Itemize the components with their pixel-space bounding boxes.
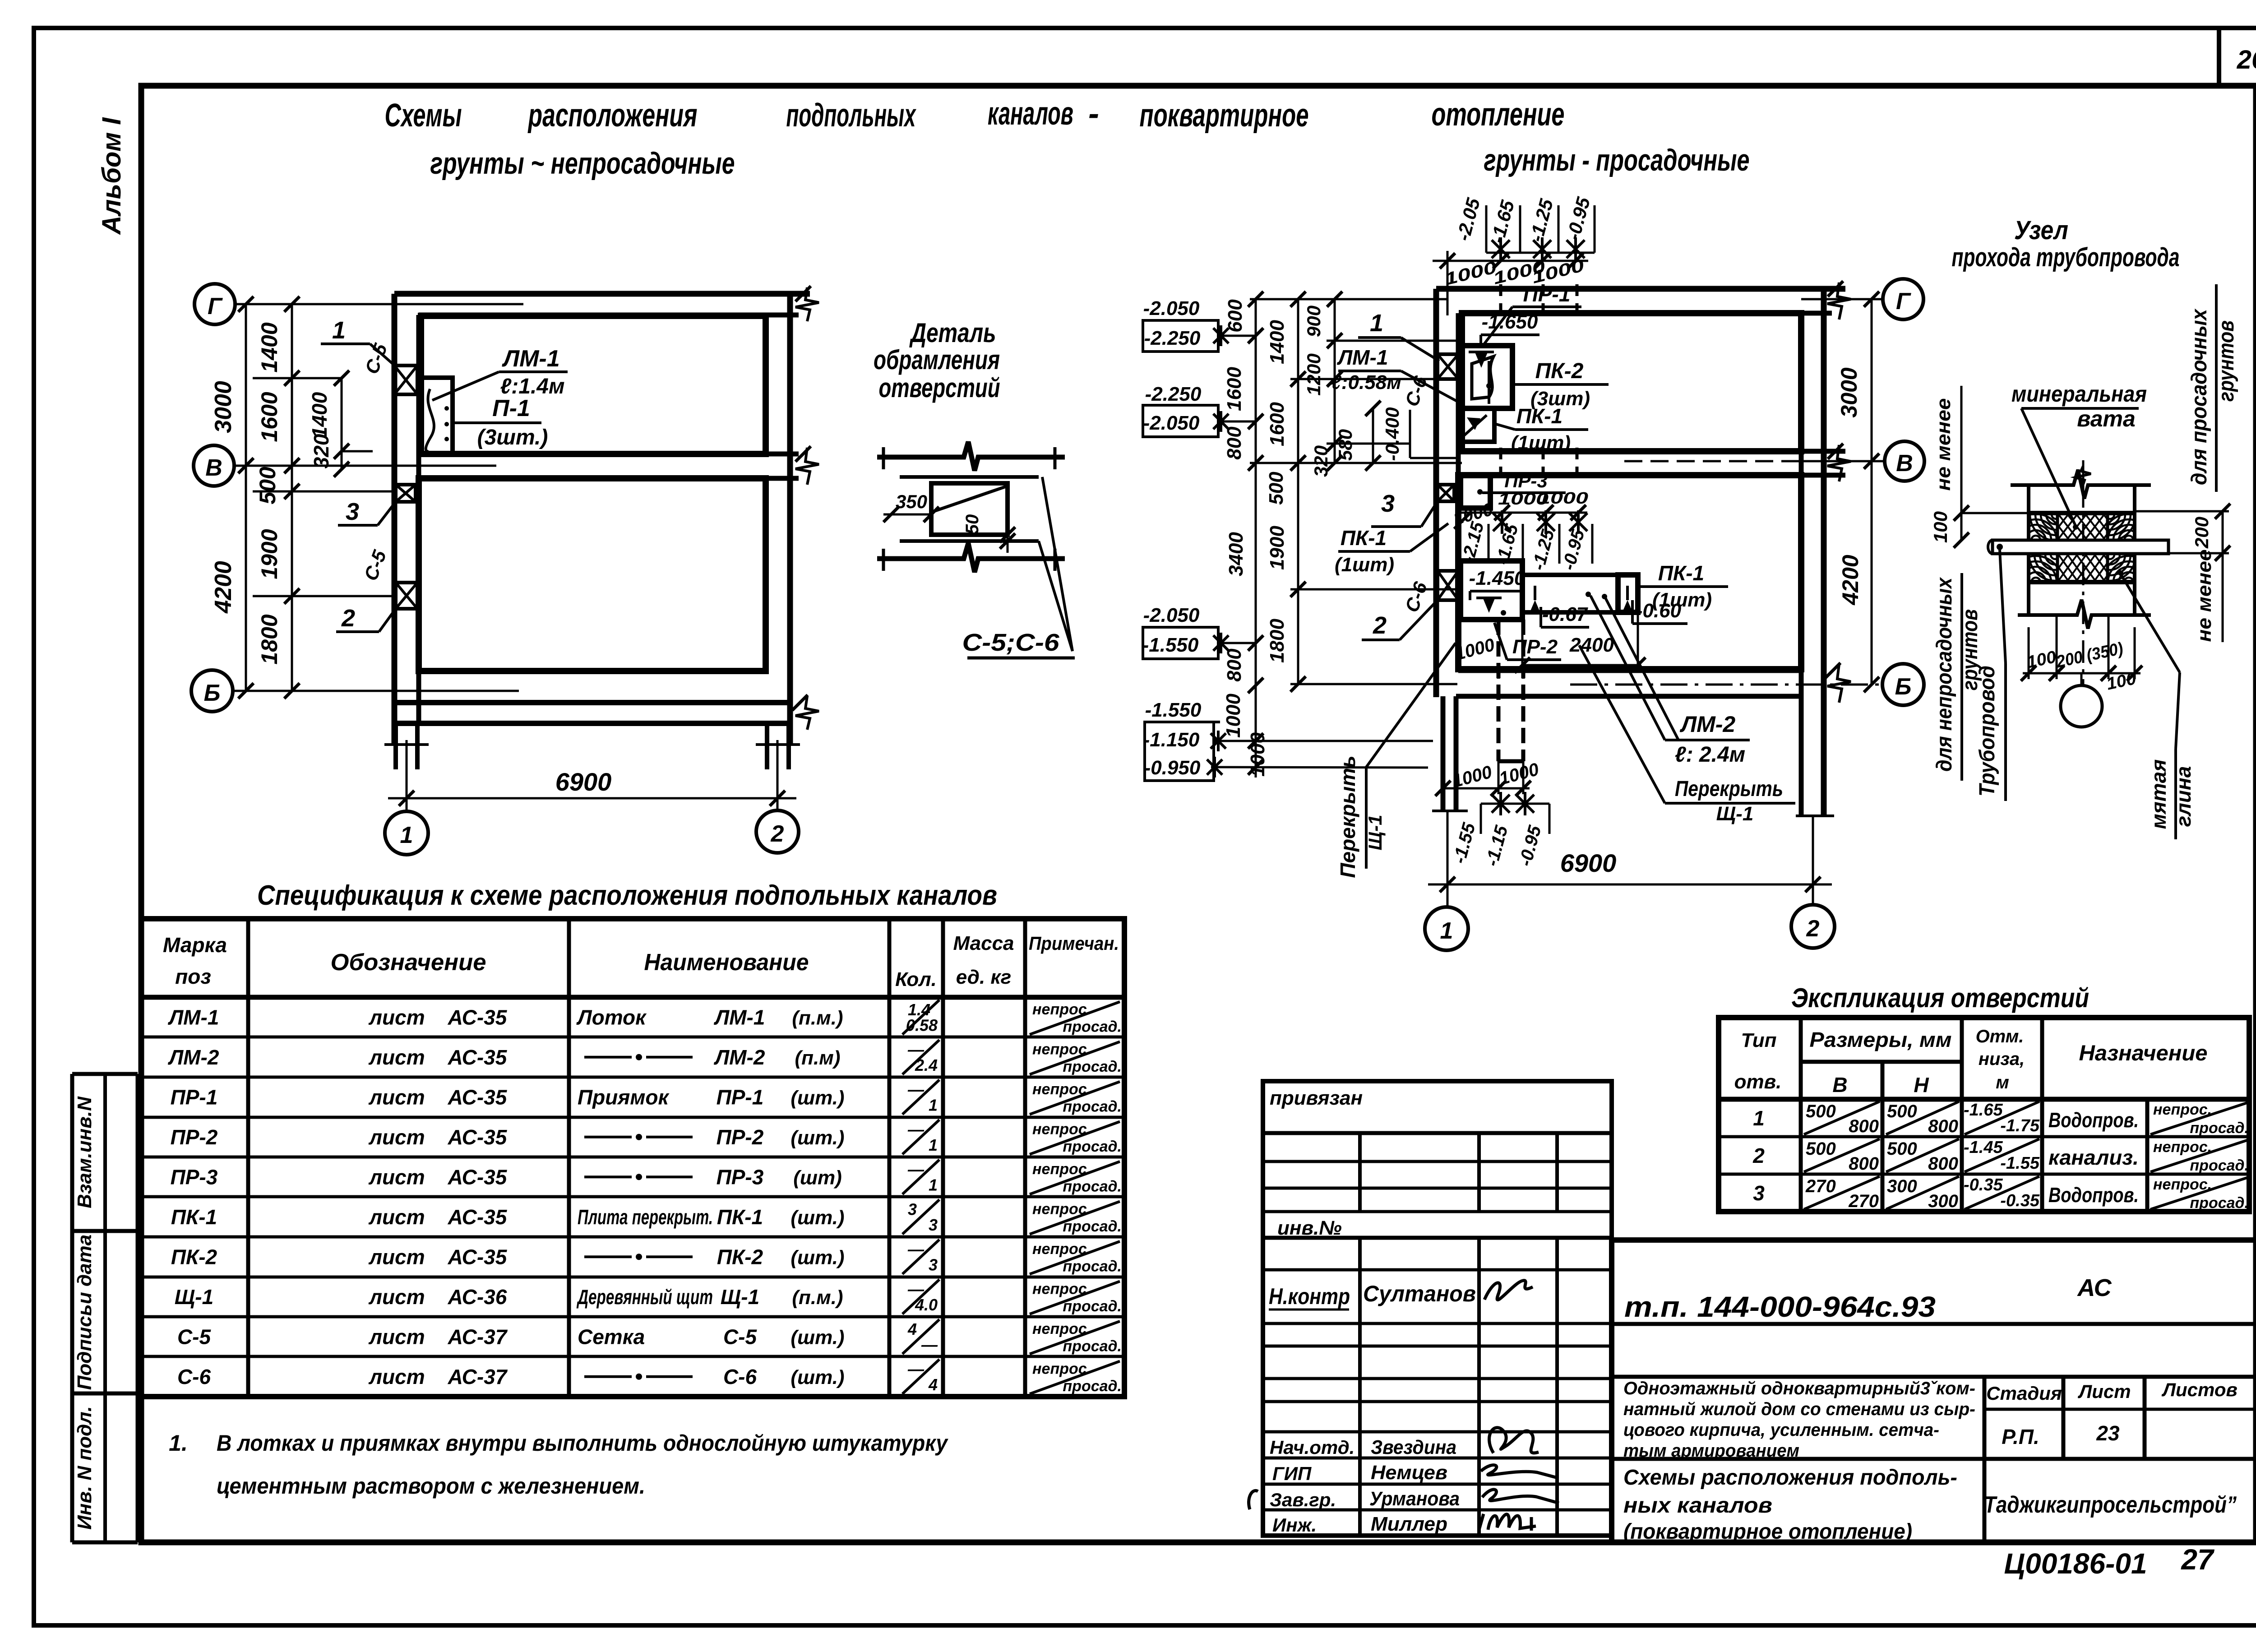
svg-text:4200: 4200 xyxy=(210,561,236,614)
hole label 2 (left plan) xyxy=(336,605,396,632)
svg-text:Назначение: Назначение xyxy=(2079,1041,2208,1065)
svg-text:П-1: П-1 xyxy=(492,395,530,421)
explication table grid xyxy=(1719,1018,2249,1212)
uzel centre line xyxy=(2076,460,2091,685)
svg-text:27: 27 xyxy=(2181,1543,2215,1576)
svg-text:(шт.): (шт.) xyxy=(791,1127,844,1149)
svg-text:лист: лист xyxy=(368,1125,425,1149)
svg-text:ПК-1: ПК-1 xyxy=(1658,561,1704,585)
svg-text:800: 800 xyxy=(1223,648,1245,682)
svg-text:АС-35: АС-35 xyxy=(448,1125,508,1149)
svg-text:привязан: привязан xyxy=(1270,1087,1363,1109)
svg-text:С-5: С-5 xyxy=(177,1325,212,1348)
svg-text:м: м xyxy=(1996,1073,2009,1092)
spec table grid xyxy=(141,919,1124,1397)
hole mark 3 with mesh (left plan) xyxy=(396,485,416,502)
svg-text:АС-35: АС-35 xyxy=(448,1245,508,1268)
svg-text:лист: лист xyxy=(368,1285,425,1309)
svg-text:1: 1 xyxy=(929,1176,938,1194)
channel ЛМ-2 horizontal (right plan) xyxy=(1522,575,1638,613)
svg-text:100: 100 xyxy=(1930,511,1951,543)
svg-text:не менее: не менее xyxy=(2193,550,2215,642)
svg-text:-1.550: -1.550 xyxy=(1145,699,1202,721)
svg-text:Щ-1: Щ-1 xyxy=(175,1285,213,1309)
svg-text:Г: Г xyxy=(1896,288,1911,315)
svg-text:ед. кг: ед. кг xyxy=(956,966,1011,988)
svg-text:1000: 1000 xyxy=(1222,694,1244,738)
svg-text:Марка: Марка xyxy=(163,933,227,957)
title block: project number xyxy=(1624,1291,1936,1323)
bottom dim 6900 (left plan) xyxy=(388,740,796,811)
svg-text:Отм.: Отм. xyxy=(1976,1027,2024,1046)
svg-text:В: В xyxy=(205,455,222,481)
svg-text:ЛМ-1: ЛМ-1 xyxy=(168,1005,219,1029)
dim 580 (right plan) xyxy=(1335,401,1381,471)
svg-text:-0.35: -0.35 xyxy=(2000,1191,2039,1210)
svg-text:Деревянный щит: Деревянный щит xyxy=(576,1285,713,1309)
svg-text:4: 4 xyxy=(928,1375,938,1394)
svg-text:-1.450: -1.450 xyxy=(1469,567,1526,589)
svg-text:2.4: 2.4 xyxy=(915,1056,938,1074)
svg-text:1: 1 xyxy=(400,822,413,848)
svg-text:просад.: просад. xyxy=(1063,1058,1122,1075)
elevation box -1.550/-1.150/-0.950 xyxy=(1143,699,1433,781)
label минеральная вата xyxy=(2011,381,2147,530)
svg-text:Водопров.: Водопров. xyxy=(2048,1183,2139,1207)
detail title Деталь обрамления отверстий xyxy=(874,318,1000,403)
grid circle Г (right plan) xyxy=(1883,279,1923,319)
svg-text:С-5;С-6: С-5;С-6 xyxy=(962,629,1060,656)
svg-text:Тип: Тип xyxy=(1741,1029,1777,1051)
svg-text:непрос.: непрос. xyxy=(1032,1001,1091,1018)
svg-text:1600: 1600 xyxy=(1266,402,1288,446)
svg-text:1000: 1000 xyxy=(1538,489,1588,507)
stamp row Нач.отд. Звездина + signature xyxy=(1270,1428,1539,1458)
svg-text:800: 800 xyxy=(1849,1116,1879,1136)
svg-text:ПР-1: ПР-1 xyxy=(717,1085,764,1109)
svg-text:ЛМ-2: ЛМ-2 xyxy=(714,1046,765,1069)
svg-text:Р.П.: Р.П. xyxy=(2002,1425,2039,1448)
svg-text:просад.: просад. xyxy=(1063,1218,1122,1235)
uzel dim 200 не менее (right) xyxy=(2135,504,2230,642)
svg-text:1400: 1400 xyxy=(257,322,282,372)
label мятая глина with leader xyxy=(2118,570,2195,839)
explication rows xyxy=(1752,1101,2249,1212)
svg-text:отопление: отопление xyxy=(1432,97,1565,133)
pit ПР-3 (right plan) xyxy=(1461,475,1490,508)
label С-6 upper (right plan) xyxy=(1401,373,1432,409)
svg-text:1: 1 xyxy=(1753,1106,1765,1130)
svg-text:500: 500 xyxy=(1887,1139,1917,1159)
svg-text:580: 580 xyxy=(1335,429,1356,461)
svg-text:Спецификация к схеме располо: Спецификация к схеме расположения подпол… xyxy=(257,880,997,911)
svg-text:-2.050: -2.050 xyxy=(1143,412,1200,434)
svg-text:АС-37: АС-37 xyxy=(448,1365,508,1388)
detail: lower slab line xyxy=(900,539,1039,543)
svg-text:расположения: расположения xyxy=(527,97,697,134)
stamp row Зав.гр. Урманова + signature xyxy=(1270,1488,1559,1510)
svg-text:просад.: просад. xyxy=(1063,1298,1122,1315)
svg-text:вата: вата xyxy=(2077,406,2136,431)
svg-text:1: 1 xyxy=(332,317,346,344)
svg-text:Размеры, мм: Размеры, мм xyxy=(1810,1028,1952,1051)
svg-text:ГИП: ГИП xyxy=(1272,1463,1312,1484)
svg-text:Приямок: Приямок xyxy=(578,1085,670,1109)
column circle 2 (right plan) xyxy=(1791,905,1835,948)
elevation -0.60 (right plan) xyxy=(1632,600,1687,624)
elevation -0.67 (right plan) xyxy=(1541,603,1589,627)
elevation -0.400 (right plan) xyxy=(1382,407,1460,461)
svg-text:Деталь: Деталь xyxy=(909,318,996,348)
label ЛМ-1 l:0.58м (right plan) xyxy=(1331,346,1462,404)
mesh box small at ПР-3 (right plan) xyxy=(1438,485,1454,501)
svg-text:500: 500 xyxy=(255,467,280,504)
svg-text:300: 300 xyxy=(1928,1191,1958,1211)
svg-text:(1шт): (1шт) xyxy=(1511,432,1571,454)
svg-text:2: 2 xyxy=(1752,1144,1765,1167)
svg-text:непрос.: непрос. xyxy=(1032,1320,1091,1337)
column circle 1 (right plan) xyxy=(1425,907,1468,950)
svg-text:С-6: С-6 xyxy=(177,1365,211,1388)
detail dim 50 xyxy=(962,514,1015,553)
svg-text:лист: лист xyxy=(368,1046,425,1069)
svg-text:Наименование: Наименование xyxy=(644,949,809,976)
svg-text:непрос.: непрос. xyxy=(1032,1281,1091,1298)
svg-text:—: — xyxy=(921,1336,938,1354)
svg-text:ПР-3: ПР-3 xyxy=(171,1165,218,1189)
title block: stage header xyxy=(1986,1379,2238,1448)
svg-text:отверстий: отверстий xyxy=(879,373,1000,403)
svg-text:грунтов: грунтов xyxy=(2214,320,2238,402)
label ЛМ-2 l=2.4м with leaders (right plan) xyxy=(1590,596,1750,767)
svg-text:Б: Б xyxy=(204,680,221,706)
svg-text:ЛМ-2: ЛМ-2 xyxy=(168,1046,219,1069)
subtitle right: грунты - просадочные xyxy=(1484,143,1750,177)
svg-text:50: 50 xyxy=(962,514,982,535)
svg-text:4.0: 4.0 xyxy=(915,1296,938,1314)
hole mark 1 with mesh С-5 (left plan) xyxy=(394,366,417,394)
top dim 1000x3 (right plan) xyxy=(1433,251,1588,315)
svg-text:для непросадочных: для непросадочных xyxy=(1932,577,1956,772)
stamp row Инж. Миллер + signature xyxy=(1272,1513,1536,1536)
svg-text:1600: 1600 xyxy=(1223,367,1245,411)
main title line 1 xyxy=(385,96,1565,134)
svg-text:200: 200 xyxy=(2191,517,2212,549)
title block frame xyxy=(1612,1240,2256,1542)
svg-text:мятая: мятая xyxy=(2147,759,2170,829)
label Перекрыть Щ-1 rotated left (right plan) xyxy=(1336,643,1456,878)
svg-text:(п.м.): (п.м.) xyxy=(792,1007,843,1029)
explication table title xyxy=(1791,983,2089,1013)
svg-text:лист: лист xyxy=(368,1005,425,1029)
svg-text:Одноэтажный одноквартирный3ˇко: Одноэтажный одноквартирный3ˇком- xyxy=(1623,1379,1975,1398)
svg-text:инв.№: инв.№ xyxy=(1277,1217,1342,1239)
subtitle left: грунты - непросадочные xyxy=(430,146,735,180)
svg-text:1000: 1000 xyxy=(1247,732,1269,777)
mesh label С-5 lower (left plan) xyxy=(360,547,391,583)
svg-text:-1.65: -1.65 xyxy=(1964,1101,2003,1120)
svg-text:низа,: низа, xyxy=(1979,1049,2025,1069)
svg-text:500: 500 xyxy=(1265,472,1287,505)
strip label Инв. N подл. xyxy=(74,1406,96,1530)
strip label Взам.инв.N xyxy=(74,1096,96,1208)
svg-text:—: — xyxy=(907,1160,925,1179)
svg-text:каналов: каналов xyxy=(988,96,1073,132)
svg-text:(шт.): (шт.) xyxy=(791,1087,844,1109)
axis line В (left plan) xyxy=(234,465,496,467)
svg-text:тым армированием: тым армированием xyxy=(1623,1441,1799,1461)
pit -1.450 (right plan) xyxy=(1461,561,1526,620)
explication header xyxy=(1734,1027,2208,1097)
label ПК-1 (1шт) mid-left (right plan) xyxy=(1335,523,1448,576)
svg-text:Стадия: Стадия xyxy=(1986,1383,2062,1404)
grid circle В (right plan) xyxy=(1885,441,1924,481)
svg-text:просад.: просад. xyxy=(2190,1157,2249,1174)
svg-text:2: 2 xyxy=(1373,612,1387,639)
svg-text:-2.050: -2.050 xyxy=(1143,297,1200,319)
svg-text:лист: лист xyxy=(368,1165,425,1189)
svg-text:отв.: отв. xyxy=(1734,1071,1782,1093)
plate box ПК-1 below ПР-1 (right plan) xyxy=(1461,408,1494,442)
svg-text:просад.: просад. xyxy=(1063,1178,1122,1195)
strip label Подпись и дата xyxy=(74,1235,96,1390)
vertical dim chain 3000/4200 (left plan) xyxy=(210,296,254,699)
svg-text:-1.75: -1.75 xyxy=(2000,1116,2039,1135)
svg-text:-1.55: -1.55 xyxy=(2000,1154,2039,1173)
svg-text:1800: 1800 xyxy=(257,614,282,664)
svg-text:непрос.: непрос. xyxy=(2153,1101,2212,1118)
svg-text:Инж.: Инж. xyxy=(1272,1514,1317,1536)
svg-text:1400: 1400 xyxy=(308,392,331,438)
svg-text:АС-37: АС-37 xyxy=(448,1325,508,1348)
svg-text:2: 2 xyxy=(771,821,784,847)
svg-text:непрос.: непрос. xyxy=(1032,1240,1091,1258)
svg-text:прохода трубопровода: прохода трубопровода xyxy=(1952,243,2180,272)
title block: АС xyxy=(2076,1274,2112,1301)
svg-text:Взам.инв.N: Взам.инв.N xyxy=(74,1096,96,1208)
svg-text:(1шт): (1шт) xyxy=(1335,554,1394,576)
svg-text:грунты ~ непросадочные: грунты ~ непросадочные xyxy=(430,146,735,180)
svg-text:ПР-3: ПР-3 xyxy=(717,1165,764,1189)
svg-text:500: 500 xyxy=(1806,1101,1836,1121)
elevation box -2.050/-1.550 xyxy=(1142,604,1256,659)
svg-text:(поквартирное отопление): (поквартирное отопление) xyxy=(1623,1520,1912,1544)
svg-text:ных каналов: ных каналов xyxy=(1623,1494,1772,1518)
svg-text:Н.контр: Н.контр xyxy=(1269,1284,1350,1309)
bottom dim 6900 (right plan) xyxy=(1428,811,1832,908)
svg-text:непрос.: непрос. xyxy=(1032,1081,1091,1098)
svg-text:Нач.отд.: Нач.отд. xyxy=(1270,1437,1355,1458)
uzel dim 100 не менее (left) xyxy=(1930,386,2030,548)
label ПК-1 (1шт) at channel (right plan) xyxy=(1639,561,1728,611)
svg-text:поквартирное: поквартирное xyxy=(1140,97,1309,134)
dim 1000/1000 room2 top (right plan) xyxy=(1451,489,1588,529)
svg-text:С-6: С-6 xyxy=(723,1365,757,1388)
dim 1000/1000 lower room (right plan) xyxy=(1435,759,1541,796)
svg-text:6900: 6900 xyxy=(555,768,612,796)
svg-text:-2.250: -2.250 xyxy=(1144,327,1201,349)
svg-text:-0.950: -0.950 xyxy=(1144,757,1201,779)
svg-text:Сетка: Сетка xyxy=(578,1325,645,1348)
svg-text:лист: лист xyxy=(368,1205,425,1229)
svg-text:-2.050: -2.050 xyxy=(1143,604,1200,626)
svg-text:—: — xyxy=(907,1080,925,1099)
svg-text:6900: 6900 xyxy=(1560,849,1617,877)
svg-text:ПР-2: ПР-2 xyxy=(717,1125,764,1149)
svg-text:ПР-2: ПР-2 xyxy=(171,1125,218,1149)
svg-text:Кол.: Кол. xyxy=(895,968,937,990)
svg-text:Экспликация отверстий: Экспликация отверстий xyxy=(1791,983,2089,1013)
svg-text:Обозначение: Обозначение xyxy=(331,949,486,976)
svg-text:т.п. 144-000-964с.93: т.п. 144-000-964с.93 xyxy=(1624,1291,1936,1323)
sleeve dashes in walls (right plan) xyxy=(1498,284,1577,700)
svg-text:просад.: просад. xyxy=(2190,1194,2249,1212)
svg-text:-2.250: -2.250 xyxy=(1145,383,1202,405)
svg-text:Н: Н xyxy=(1914,1073,1929,1097)
note below spec table xyxy=(169,1430,948,1499)
svg-text:(шт.): (шт.) xyxy=(791,1246,844,1268)
svg-text:АС-35: АС-35 xyxy=(448,1046,508,1069)
svg-text:лист: лист xyxy=(368,1325,425,1348)
svg-text:Схемы расположения подполь-: Схемы расположения подполь- xyxy=(1623,1466,1957,1490)
detail: upper wall line with break xyxy=(877,442,1065,471)
svg-text:Ц00186-01: Ц00186-01 xyxy=(2004,1547,2147,1580)
svg-text:1800: 1800 xyxy=(1266,619,1288,663)
svg-text:(шт.): (шт.) xyxy=(791,1326,844,1348)
svg-text:1: 1 xyxy=(929,1096,938,1115)
svg-text:3000: 3000 xyxy=(210,381,236,433)
svg-text:270: 270 xyxy=(1848,1191,1879,1211)
svg-text:1900: 1900 xyxy=(257,529,282,579)
svg-text:(шт.): (шт.) xyxy=(791,1207,844,1229)
svg-text:ЛМ-1: ЛМ-1 xyxy=(1337,346,1388,369)
grid circle Г (left plan) xyxy=(194,284,235,324)
svg-text:Таджикгипросельстрой”: Таджикгипросельстрой” xyxy=(1984,1492,2237,1518)
svg-text:Листов: Листов xyxy=(2161,1379,2238,1400)
title block: организация xyxy=(1984,1492,2237,1518)
svg-text:В: В xyxy=(1832,1073,1847,1097)
svg-text:3000: 3000 xyxy=(1836,367,1862,417)
svg-text:АС-35: АС-35 xyxy=(448,1085,508,1109)
svg-text:23: 23 xyxy=(2096,1421,2120,1445)
svg-text:3: 3 xyxy=(1753,1181,1765,1205)
dim chain C (right plan left) xyxy=(1303,292,1342,477)
wall break marks (right plan) xyxy=(1825,281,1851,703)
svg-text:грунты - просадочные: грунты - просадочные xyxy=(1484,143,1750,177)
grid circle Б (right plan) xyxy=(1882,664,1924,705)
svg-text:просад.: просад. xyxy=(1063,1098,1122,1115)
svg-text:2: 2 xyxy=(341,605,355,632)
inner dim chain 1400/320 (left plan) xyxy=(308,370,373,477)
svg-text:просад.: просад. xyxy=(1063,1258,1122,1275)
svg-text:Лоток: Лоток xyxy=(576,1005,647,1029)
svg-text:подпольных: подпольных xyxy=(786,97,917,134)
svg-text:-0.67: -0.67 xyxy=(1542,603,1589,625)
svg-text:1600: 1600 xyxy=(257,392,282,442)
svg-text:С-5: С-5 xyxy=(723,1325,758,1348)
svg-text:800: 800 xyxy=(1928,1116,1958,1136)
svg-text:АС-35: АС-35 xyxy=(448,1005,508,1029)
svg-text:500: 500 xyxy=(1887,1101,1917,1121)
svg-text:Г: Г xyxy=(208,293,223,319)
svg-text:900: 900 xyxy=(1303,305,1324,337)
svg-text:(п.м): (п.м) xyxy=(795,1047,841,1069)
axis line Г (left plan) xyxy=(235,303,523,305)
detail: upper slab line xyxy=(900,475,1039,479)
detail dim 350 xyxy=(883,491,939,522)
label для непросадочных грунтов xyxy=(1932,573,1982,781)
svg-text:Миллер: Миллер xyxy=(1371,1513,1447,1535)
svg-text:Лист: Лист xyxy=(2077,1381,2131,1402)
svg-text:ПР-1: ПР-1 xyxy=(171,1085,218,1109)
svg-text:800: 800 xyxy=(1928,1154,1958,1174)
wall break marks (left plan) xyxy=(792,286,819,730)
column circle 1 (left plan) xyxy=(385,811,428,855)
svg-text:Перекрыть: Перекрыть xyxy=(1675,777,1783,801)
vertical channel through Б wall (right plan) xyxy=(1498,620,1523,761)
sheet number box 26 xyxy=(2219,28,2256,86)
svg-text:АС-35: АС-35 xyxy=(448,1205,508,1229)
hole label 2 (right plan) xyxy=(1362,600,1438,640)
top dim bracket with elevations (right plan) xyxy=(1452,194,1595,261)
svg-text:800: 800 xyxy=(1223,426,1245,460)
label ПР-1 (right plan) xyxy=(1482,282,1581,347)
svg-text:Схемы: Схемы xyxy=(385,97,462,134)
svg-text:-1.150: -1.150 xyxy=(1143,729,1200,751)
svg-text:непрос.: непрос. xyxy=(2153,1176,2212,1193)
svg-text:канализ.: канализ. xyxy=(2048,1146,2139,1169)
svg-text:ПР-3: ПР-3 xyxy=(1504,470,1548,491)
svg-text:—: — xyxy=(907,1120,925,1139)
svg-text:ЛМ-1: ЛМ-1 xyxy=(501,346,559,372)
svg-text:-1.550: -1.550 xyxy=(1142,634,1199,656)
svg-text:минеральная: минеральная xyxy=(2011,381,2147,407)
svg-text:2400: 2400 xyxy=(1569,634,1614,656)
svg-text:Примечан.: Примечан. xyxy=(1029,933,1119,954)
dim 2400 (right plan) xyxy=(1515,612,1646,673)
svg-text:300: 300 xyxy=(1887,1176,1917,1196)
svg-text:Щ-1: Щ-1 xyxy=(721,1285,759,1309)
stamp text привязан xyxy=(1270,1087,1363,1109)
svg-text:500: 500 xyxy=(1806,1139,1836,1159)
spec table header xyxy=(163,932,1119,990)
stray mark near stamp xyxy=(1249,1490,1258,1509)
stamp row ГИП Немцев + signature xyxy=(1272,1462,1558,1484)
svg-text:для просадочных: для просадочных xyxy=(2187,308,2211,485)
svg-text:непрос.: непрос. xyxy=(1032,1161,1091,1178)
svg-text:(шт.): (шт.) xyxy=(791,1366,844,1388)
mesh box С-6 lower (right plan) xyxy=(1438,571,1458,600)
svg-text:Щ-1: Щ-1 xyxy=(1716,803,1754,825)
uzel wall edges xyxy=(2011,470,2151,629)
detail: lower wall line with break xyxy=(877,543,1065,572)
svg-text:26: 26 xyxy=(2237,45,2256,74)
dim chain B (right plan left) xyxy=(1265,292,1306,692)
svg-text:просад.: просад. xyxy=(1063,1138,1122,1155)
svg-text:натный жилой дом со стенами из: натный жилой дом со стенами из сыр- xyxy=(1623,1399,1975,1419)
svg-text:ЛМ-2: ЛМ-2 xyxy=(1680,712,1736,737)
svg-text:просад.: просад. xyxy=(1063,1338,1122,1355)
svg-text:ℓ: 2.4м: ℓ: 2.4м xyxy=(1675,743,1745,767)
svg-text:ПК-2: ПК-2 xyxy=(717,1245,763,1268)
svg-text:1200: 1200 xyxy=(1303,353,1324,395)
svg-text:Перекрыть: Перекрыть xyxy=(1336,755,1359,878)
svg-text:1400: 1400 xyxy=(1266,320,1288,364)
svg-text:Щ-1: Щ-1 xyxy=(1364,815,1386,851)
pit ПР-1 (right plan) xyxy=(1461,346,1512,408)
mesh label С-5 upper (left plan) xyxy=(361,341,392,377)
svg-text:ПК-1: ПК-1 xyxy=(1516,404,1563,428)
